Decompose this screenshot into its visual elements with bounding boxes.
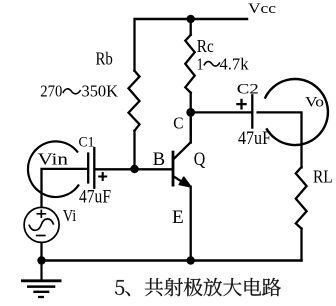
svg-text:Vcc: Vcc [248,1,276,17]
wire emitter vertical [190,187,192,261]
svg-text:47uF: 47uF [238,129,271,149]
svg-text:Rc: Rc [197,36,214,56]
svg-text:47uF: 47uF [79,188,111,208]
wire Rc branch upper [190,19,192,35]
wire node C to C2 [191,111,252,113]
junction emitter / ground rail [187,256,195,264]
caption 5、共射极放大电路 [115,278,281,296]
wire bottom rail [42,259,302,262]
wire base [95,168,171,170]
wire RL lower [300,229,302,261]
svg-text:1: 1 [197,54,204,73]
wire Vi to rail [40,243,42,260]
source Vi (AC) [24,207,59,242]
svg-text:270: 270 [40,82,62,101]
source Vin circle [28,141,79,197]
ground [21,261,62,298]
transistor emitter arrowhead [179,177,191,187]
svg-text:Vo: Vo [305,95,324,111]
capacitor C2 plus [236,99,246,110]
capacitor C2 [251,95,253,127]
source Vo circle [265,79,328,145]
node B junction [130,165,138,173]
svg-text:C1: C1 [79,135,95,151]
transistor Q (NPN) [173,112,191,186]
resistor RL [296,167,307,229]
svg-text:350K: 350K [82,82,119,101]
svg-text:4.7k: 4.7k [220,54,250,73]
svg-text:C: C [173,113,183,132]
svg-text:Vi: Vi [63,206,77,225]
wire output [258,112,302,167]
node C junction [186,108,195,117]
junction at Vi / ground rail [37,256,45,264]
svg-text:RL: RL [313,167,333,187]
svg-text:Q: Q [194,149,206,170]
svg-text:E: E [172,207,184,228]
junction at Vcc rail / Rc [187,15,195,23]
wire collector vertical [190,93,192,143]
resistor Rc [185,35,194,93]
svg-text:Vin: Vin [38,150,69,169]
svg-text:B: B [153,149,166,170]
svg-text:C2: C2 [237,82,259,98]
svg-text:Rb: Rb [96,48,113,68]
wire Rb branch upper [133,19,135,71]
resistor Rb [129,71,140,131]
capacitor C1 plus [98,172,107,181]
wire Vcc top rail [135,18,247,21]
wire input L [42,169,88,207]
wire Rb branch lower [133,131,135,169]
capacitor C1 [88,148,94,188]
